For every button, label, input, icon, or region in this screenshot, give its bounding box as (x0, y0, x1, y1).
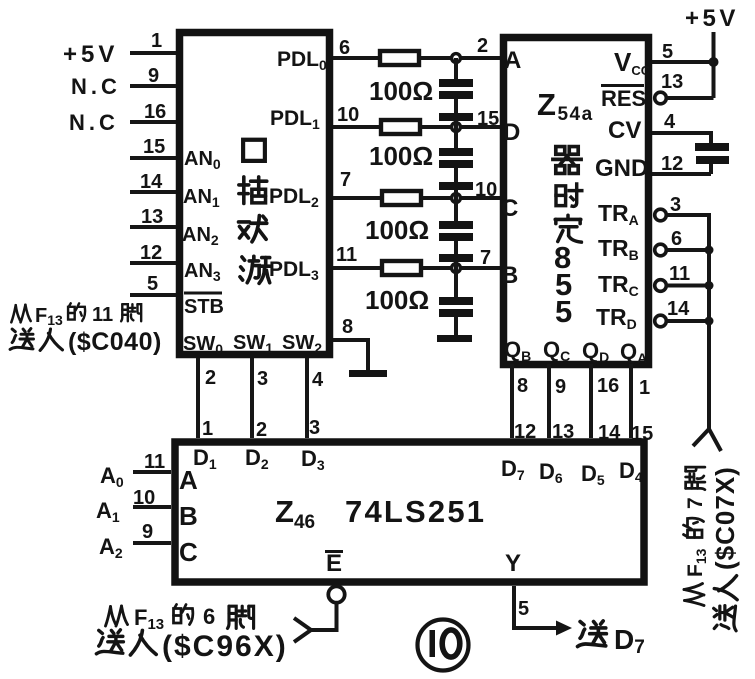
svg-text:6: 6 (671, 228, 682, 250)
svg-text:PDL1: PDL1 (270, 107, 320, 132)
E enable bubble (328, 586, 344, 602)
svg-text:($C07X): ($C07X) (710, 466, 740, 570)
svg-text:16: 16 (144, 101, 166, 123)
node junction net4 (452, 264, 461, 273)
svg-text:N.C: N.C (71, 74, 121, 99)
node junction net3 (452, 194, 461, 203)
svg-text:QD: QD (582, 338, 609, 365)
svg-text:2: 2 (256, 419, 267, 441)
capacitor chain C3 (node C) (454, 198, 458, 221)
timer IC Z54a box (558) (504, 38, 649, 365)
wire A0 pin 11 (133, 470, 171, 474)
node dot TRB (705, 246, 714, 255)
wire A1 pin 10 (133, 505, 171, 509)
svg-text:7: 7 (480, 247, 491, 269)
RES pin 13 bubble (655, 92, 667, 104)
wire TRD to trigger bus (666, 319, 709, 323)
svg-text:Z46: Z46 (275, 494, 315, 533)
svg-text:+5V: +5V (63, 41, 118, 68)
connector title char 口 (243, 140, 265, 161)
svg-text:AN1: AN1 (183, 186, 220, 210)
svg-text:PDL3: PDL3 (269, 258, 319, 283)
wire PDL3 to resistor R4 (333, 266, 382, 270)
wire connector pin 14 (130, 190, 176, 194)
svg-text:14: 14 (140, 171, 163, 193)
svg-text:5: 5 (555, 294, 572, 329)
wire connector pin 15 (130, 156, 176, 160)
ground bar (pin 8) (349, 370, 387, 377)
wire R2 to timer (420, 125, 500, 129)
svg-text:B: B (179, 501, 198, 531)
svg-text:4: 4 (664, 111, 676, 133)
svg-text:D3: D3 (301, 446, 325, 473)
svg-text:A0: A0 (100, 463, 124, 490)
svg-text:QC: QC (543, 337, 570, 364)
wire Q output to mux (x=631) (629, 364, 633, 438)
timer title char 定 (555, 215, 581, 242)
wire connector pin 5 (130, 293, 176, 297)
svg-text:8: 8 (342, 316, 353, 338)
annotation 送D7 (578, 621, 645, 658)
timer title char 器 (553, 147, 581, 174)
wire SW to mux (x=307) (305, 358, 309, 438)
svg-text:Y: Y (505, 550, 521, 577)
svg-text:RES: RES (601, 86, 646, 111)
annotation 送入($C96X) (96, 630, 287, 663)
wire GND pin 12 (652, 164, 711, 174)
wire TRB to trigger bus (666, 248, 709, 252)
annotation 送入($C040) (10, 328, 162, 356)
svg-text:AN0: AN0 (184, 148, 221, 172)
svg-text:3: 3 (670, 194, 681, 216)
svg-text:9: 9 (142, 521, 153, 543)
timer title char 时 (556, 184, 582, 206)
chevron arrow into E wire (294, 618, 311, 642)
svg-text:1: 1 (202, 418, 213, 440)
svg-text:A: A (504, 47, 521, 74)
svg-text:6: 6 (339, 37, 350, 59)
arrow head on trigger bus (input) (693, 429, 721, 451)
svg-text:PDL2: PDL2 (269, 185, 319, 210)
svg-text:E: E (326, 550, 342, 577)
svg-text:11: 11 (144, 451, 165, 473)
svg-text:AN2: AN2 (182, 224, 219, 248)
svg-text:TRA: TRA (598, 200, 639, 228)
wire connector pin 9 (130, 84, 176, 88)
capacitor chain C4 (node B) (454, 268, 458, 297)
wire PDL2 to resistor R3 (333, 196, 382, 200)
node junction net2 (452, 123, 461, 132)
wire A2 pin 9 (133, 541, 171, 545)
svg-text:SW1: SW1 (233, 332, 273, 356)
resistor R3 100ohm (382, 191, 421, 205)
wire connector pin 16 (130, 120, 176, 124)
svg-text:D7: D7 (614, 624, 645, 658)
trigger bus wire (707, 250, 711, 429)
wire R1 to timer (419, 56, 500, 60)
wire PDL1 to resistor R2 (333, 125, 381, 129)
svg-text:D: D (503, 119, 520, 146)
svg-text:12: 12 (140, 242, 162, 264)
svg-text:13: 13 (661, 71, 683, 93)
svg-text:F13: F13 (134, 605, 164, 633)
svg-text:STB: STB (184, 296, 224, 318)
wire Q output to mux (x=549) (547, 364, 551, 438)
wire CV pin 4 (652, 133, 711, 143)
svg-text:10: 10 (337, 104, 359, 126)
svg-text:15: 15 (143, 136, 165, 158)
svg-text:13: 13 (141, 206, 163, 228)
connector title char 插 (239, 177, 267, 204)
annotation 送入($C07X) (rotated) (710, 466, 740, 631)
capacitor C5 (CV) (695, 143, 729, 151)
svg-text:14: 14 (667, 298, 690, 320)
svg-text:D5: D5 (581, 461, 605, 488)
wire E input (311, 602, 337, 630)
wire Q output to mux (x=591) (589, 364, 593, 438)
svg-text:F13: F13 (684, 548, 709, 577)
svg-text:5: 5 (147, 273, 158, 295)
svg-text:C: C (179, 537, 198, 567)
capacitor chain C1 (node A) (454, 58, 458, 79)
svg-text:10: 10 (475, 179, 497, 201)
TRC pin 11 bubble (655, 280, 667, 292)
svg-text:A2: A2 (99, 534, 123, 561)
svg-text:9: 9 (148, 65, 159, 87)
multiplexer Z46 box (74LS251) (175, 442, 644, 582)
wire +5V rail (712, 32, 716, 98)
svg-text:N.C: N.C (69, 110, 119, 135)
wire SW to mux (x=198) (196, 358, 200, 438)
annotation 从F13的6脚 (106, 604, 254, 633)
wire TRA to trigger bus (666, 215, 709, 250)
wire Y output pin 5 (514, 586, 556, 628)
node junction net1 (452, 54, 461, 63)
svg-text:F13: F13 (35, 305, 63, 328)
svg-text:SW2: SW2 (282, 332, 322, 356)
svg-text:TRB: TRB (598, 235, 639, 263)
wire connector pin 1 (130, 51, 176, 55)
wire connector pin 8 to ground (333, 340, 368, 371)
svg-text:QB: QB (504, 337, 531, 364)
svg-text:5: 5 (662, 41, 673, 63)
TRB pin 6 bubble (655, 244, 667, 256)
wire Q output to mux (x=512) (510, 364, 514, 438)
svg-text:2: 2 (477, 35, 488, 57)
resistor R2 100ohm (381, 120, 420, 134)
svg-text:D4: D4 (619, 458, 643, 485)
svg-text:QA: QA (620, 339, 647, 366)
wire RES pin 13 (666, 96, 714, 100)
TRA pin 3 bubble (655, 209, 667, 221)
wire connector pin 12 (130, 261, 176, 265)
annotation 从F13的7脚 (rotated) (684, 467, 710, 605)
svg-text:D7: D7 (501, 456, 525, 483)
svg-text:9: 9 (555, 376, 566, 398)
svg-text:7: 7 (340, 169, 351, 191)
svg-text:2: 2 (205, 367, 216, 389)
connector title char 戏 (239, 216, 267, 242)
wire Vcc pin 5 (652, 60, 714, 64)
svg-text:100Ω: 100Ω (369, 141, 433, 171)
svg-text:74LS251: 74LS251 (345, 494, 486, 529)
svg-text:15: 15 (477, 108, 499, 130)
svg-text:3: 3 (257, 368, 268, 390)
svg-text:100Ω: 100Ω (365, 285, 429, 315)
svg-text:+5V: +5V (685, 5, 739, 32)
svg-text:CV: CV (608, 117, 641, 144)
svg-text:100Ω: 100Ω (369, 76, 433, 106)
svg-text:A: A (179, 465, 198, 495)
svg-text:1: 1 (639, 377, 650, 399)
arrow head Y output (556, 621, 572, 636)
wire SW to mux (x=252) (250, 358, 254, 438)
svg-text:($C96X): ($C96X) (162, 630, 288, 663)
svg-text:C: C (501, 195, 518, 222)
wire connector pin 13 (130, 225, 176, 229)
annotation 从F13的11脚 (11, 303, 141, 328)
wire R4 to timer (421, 266, 500, 270)
svg-text:8: 8 (517, 375, 528, 397)
wire TRC to trigger bus (666, 284, 709, 288)
svg-text:12: 12 (661, 153, 683, 175)
node dot Vcc rail (709, 57, 719, 67)
svg-text:AN3: AN3 (184, 260, 221, 284)
svg-text:Z54a: Z54a (537, 87, 594, 125)
TRD pin 14 bubble (655, 315, 667, 327)
svg-text:3: 3 (309, 417, 320, 439)
svg-text:16: 16 (597, 375, 619, 397)
svg-text:11: 11 (669, 263, 690, 285)
svg-text:D6: D6 (539, 459, 563, 486)
node dot TRC (705, 281, 714, 290)
svg-text:10: 10 (133, 487, 155, 509)
svg-text:6: 6 (203, 604, 215, 629)
capacitor chain C2 (node D) (454, 127, 458, 148)
svg-text:1: 1 (151, 30, 162, 52)
resistor R1 100ohm (380, 51, 419, 65)
svg-text:SW0: SW0 (183, 333, 223, 357)
resistor R4 100ohm (382, 261, 421, 275)
svg-text:4: 4 (312, 369, 324, 391)
svg-text:B: B (501, 262, 518, 289)
svg-text:A1: A1 (96, 498, 120, 525)
node dot TRD (705, 317, 714, 326)
svg-text:TRD: TRD (596, 304, 637, 332)
svg-text:11: 11 (92, 304, 113, 326)
wire R3 to timer (421, 196, 500, 200)
svg-text:($C040): ($C040) (68, 328, 162, 356)
svg-text:D2: D2 (245, 445, 269, 472)
svg-text:7: 7 (684, 497, 707, 509)
connector title char 游 (240, 256, 270, 283)
wire PDL0 to resistor R1 (333, 56, 380, 60)
svg-text:11: 11 (336, 244, 357, 266)
svg-text:100Ω: 100Ω (365, 215, 429, 245)
ground bar (cap chain) (437, 335, 472, 342)
svg-text:PDL0: PDL0 (277, 48, 327, 73)
svg-text:TRC: TRC (598, 271, 639, 299)
svg-text:5: 5 (518, 598, 529, 620)
svg-text:GND: GND (595, 155, 648, 182)
game connector J1 box (游戏插口) (180, 33, 330, 355)
figure number circle 10 (418, 620, 469, 671)
